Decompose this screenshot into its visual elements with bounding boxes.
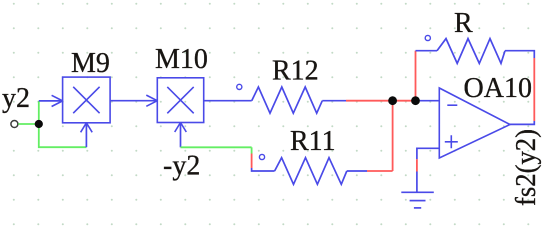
wire R out to corner (blue) xyxy=(505,51,534,58)
input terminal y2 xyxy=(11,121,18,128)
wire R12 out (blue then red) to node A xyxy=(322,100,346,102)
wire -y2 net horizontal (green) xyxy=(181,146,252,148)
multiplier M10 xyxy=(146,78,203,132)
resistor R11 xyxy=(275,158,347,185)
svg-text:y2: y2 xyxy=(2,83,30,114)
wire stub into M9 in1 (blue) xyxy=(39,100,63,102)
svg-text:R: R xyxy=(454,8,473,39)
svg-text:-y2: -y2 xyxy=(163,151,200,182)
wire to R (blue) xyxy=(416,50,438,52)
resistor R12 xyxy=(252,87,323,113)
wire M10 in2 stub down (blue) xyxy=(180,123,182,148)
svg-text:M9: M9 xyxy=(71,48,110,79)
junction dot node A xyxy=(388,96,397,105)
wire M10 out to R12 (blue) xyxy=(204,100,252,102)
wire corner to output (blue) xyxy=(510,121,534,124)
svg-text:R11: R11 xyxy=(290,126,336,157)
wire feedback down (red) xyxy=(533,58,535,121)
multiplier M9 xyxy=(52,77,111,132)
node circle near R xyxy=(425,35,430,40)
wire -y2 net corner down (green/red/blue) xyxy=(251,147,253,153)
junction node dot on y2 net xyxy=(35,120,43,128)
junction dot node B xyxy=(411,96,420,105)
ground xyxy=(401,192,434,208)
wire node B to op-amp minus input (blue) xyxy=(420,100,440,102)
wire y2 terminal to junction (green) xyxy=(18,123,39,125)
wire stub up into M9 in2 (blue) xyxy=(85,123,87,147)
wire M9 out to M10 in1 (blue) xyxy=(110,100,157,102)
svg-text:fs2(y2): fs2(y2) xyxy=(511,129,542,206)
node circle near R11 xyxy=(259,154,264,159)
op-amp OA10 xyxy=(439,88,510,158)
resistor R xyxy=(437,39,505,64)
node circle near R12 xyxy=(237,84,242,89)
wire op-amp plus input to ground (blue/red/blue) xyxy=(417,148,439,159)
wire junction up to M9 in1 (green vertical) xyxy=(38,101,40,124)
svg-text:M10: M10 xyxy=(155,44,208,75)
wire R11 out (blue then red) up to node A xyxy=(347,170,367,172)
wire feedback up from node B (red) xyxy=(415,51,417,101)
svg-text:OA10: OA10 xyxy=(464,73,532,104)
wire junction down and right to M9 in2 (green) xyxy=(39,124,87,147)
svg-text:R12: R12 xyxy=(272,56,319,87)
